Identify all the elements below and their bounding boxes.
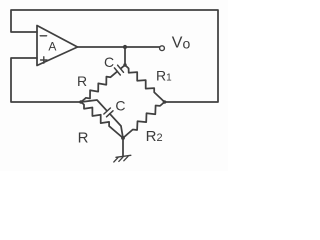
- node bridge top split: [123, 63, 126, 66]
- wire stub from output node down to bridge top: [124, 47, 126, 65]
- node output junction dot: [123, 45, 127, 49]
- capacitor C series plates: [114, 65, 123, 75]
- svg-text:R: R: [77, 73, 87, 89]
- capacitor C series lead: [121, 65, 125, 68]
- svg-text:R1: R1: [156, 67, 172, 83]
- svg-text:C: C: [115, 97, 125, 113]
- terminal Vo open circle: [160, 46, 165, 51]
- resistor R parallel zigzag: [81, 102, 123, 138]
- wire capacitor C parallel to bottom node: [110, 114, 123, 138]
- wire op-amp output to Vo terminal: [78, 46, 160, 48]
- node bridge bottom: [121, 136, 125, 140]
- svg-text:C: C: [104, 54, 114, 70]
- resistor R2 zigzag: [123, 102, 165, 138]
- svg-text:R2: R2: [146, 128, 163, 145]
- svg-text:R: R: [78, 129, 89, 146]
- wire feedback loop: minus input, top edge, right edge to right bridge node: [11, 10, 218, 102]
- node right bridge: [163, 100, 167, 104]
- op-amp A: [37, 26, 78, 66]
- wire bottom node to ground: [122, 138, 124, 156]
- node left bridge: [79, 100, 83, 104]
- resistor R series zigzag: [81, 71, 117, 102]
- op-amp minus pin mark: [40, 35, 46, 37]
- capacitor C parallel leads: [81, 100, 107, 111]
- op-amp plus pin mark: [41, 57, 47, 63]
- wire noninverting input: plus input, left edge down, to left bridge node: [11, 58, 81, 102]
- svg-text:Vo: Vo: [172, 35, 191, 52]
- ground: [116, 155, 131, 157]
- svg-text:A: A: [48, 40, 56, 54]
- capacitor C parallel plates: [104, 108, 113, 117]
- resistor R1 zigzag: [125, 65, 165, 102]
